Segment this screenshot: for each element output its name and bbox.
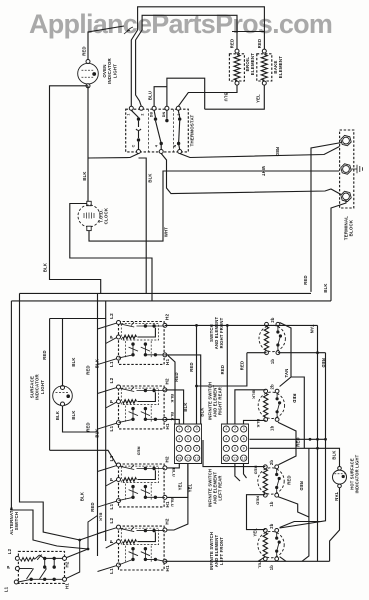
svg-text:4: 4	[178, 438, 180, 442]
wire junction rail y448 to hot light BLK	[250, 448, 340, 466]
svg-text:2b: 2b	[270, 317, 275, 323]
svg-text:ELEMENT: ELEMENT	[250, 53, 255, 75]
svg-text:BLU: BLU	[171, 468, 176, 477]
switch left rear contacts	[121, 465, 135, 470]
infinite switch right front box	[119, 322, 165, 365]
wire RF bottom left RED	[197, 353, 267, 386]
wire thermostat N red to terminal block top	[180, 147, 340, 158]
svg-text:BLK: BLK	[200, 407, 205, 416]
svg-text:5: 5	[187, 438, 189, 442]
svg-text:L2: L2	[109, 455, 114, 461]
wire bundle to thermostat T1	[131, 30, 137, 106]
svg-text:DN: DN	[162, 112, 166, 118]
svg-text:H1: H1	[165, 565, 170, 572]
svg-text:H2: H2	[165, 456, 170, 463]
svg-text:THERMOSTAT: THERMOSTAT	[190, 114, 195, 146]
wire RF right side TAN	[280, 323, 291, 387]
svg-text:LIGHT: LIGHT	[40, 380, 45, 394]
svg-text:C: C	[132, 144, 136, 147]
surface element right front	[259, 325, 285, 351]
wire LF BR to bottom rail	[280, 557, 286, 562]
wire RR BL to grid2 BLK	[244, 420, 266, 424]
svg-text:2b: 2b	[269, 384, 274, 390]
svg-text:RED: RED	[137, 446, 142, 455]
wire LR BR RED	[278, 497, 309, 517]
svg-text:L2: L2	[109, 517, 114, 523]
svg-text:CLOCK: CLOCK	[104, 207, 109, 224]
connector block left	[175, 424, 202, 464]
svg-text:RED: RED	[86, 365, 91, 374]
svg-text:BLOCK: BLOCK	[349, 219, 354, 236]
svg-text:12: 12	[242, 457, 246, 461]
svg-text:RED: RED	[85, 422, 90, 431]
svg-text:7: 7	[178, 448, 180, 452]
clock T.O.D.	[87, 201, 91, 205]
svg-text:P: P	[109, 540, 114, 543]
svg-text:1b: 1b	[269, 565, 274, 571]
ground symbol	[352, 165, 363, 173]
svg-text:L1: L1	[109, 361, 114, 367]
wire LF BL YEL	[258, 557, 265, 562]
wire DN up over to bake return	[167, 78, 205, 109]
wire clock bottom WHT	[89, 171, 339, 241]
svg-text:7: 7	[225, 448, 227, 452]
wire RR BR chain to LR TR RED	[278, 422, 296, 465]
switch left front terminals	[117, 525, 121, 529]
infinite switch right rear box	[119, 386, 165, 429]
wire hop marks	[124, 27, 133, 34]
svg-text:RED: RED	[292, 394, 297, 403]
svg-text:BLK: BLK	[252, 390, 257, 399]
wire feeder stubs	[98, 323, 117, 329]
wire RF bottom row to right	[278, 352, 326, 354]
bus line 2	[11, 301, 331, 549]
svg-text:YEL: YEL	[253, 528, 258, 537]
wire RF line down to grid2 RED	[226, 325, 228, 424]
wire thermostat 4 to terminal block bottom	[161, 154, 341, 195]
svg-text:N: N	[173, 144, 177, 147]
svg-text:WHT: WHT	[261, 166, 266, 176]
svg-text:L2: L2	[109, 313, 114, 319]
svg-text:RED: RED	[174, 372, 179, 381]
svg-text:TAN: TAN	[334, 492, 339, 501]
svg-text:10: 10	[177, 457, 181, 461]
svg-text:6: 6	[243, 438, 245, 442]
surface element right rear	[258, 392, 284, 418]
svg-text:L1: L1	[109, 503, 114, 509]
svg-text:H2: H2	[165, 378, 170, 385]
svg-text:YEL: YEL	[258, 560, 263, 569]
alternate switch contacts	[20, 558, 34, 562]
svg-text:RED: RED	[254, 465, 259, 474]
svg-text:BLK: BLK	[82, 171, 87, 180]
lamp oven indicator light	[86, 60, 90, 64]
svg-text:H1: H1	[165, 359, 170, 366]
infinite switch left rear box	[119, 464, 165, 507]
alternate switch box	[18, 551, 64, 583]
terminal block box	[340, 130, 354, 208]
wire broil return to thermostat	[178, 85, 237, 106]
alternate switch terminals	[15, 556, 19, 560]
svg-text:2: 2	[141, 113, 145, 115]
svg-text:RIGHT REAR: RIGHT REAR	[218, 387, 223, 415]
svg-text:BLU: BLU	[147, 91, 152, 100]
wire junction dots	[87, 548, 90, 551]
wire grid2 to RR TL BLK	[235, 390, 266, 424]
wire U2 H1 to grid	[165, 419, 179, 424]
surface element left front	[258, 531, 284, 557]
svg-text:6: 6	[196, 438, 198, 442]
svg-text:12: 12	[195, 457, 199, 461]
svg-text:2: 2	[234, 428, 236, 432]
connector block right	[222, 424, 249, 464]
svg-text:BLK: BLK	[256, 419, 261, 428]
wire clock top branch	[70, 204, 152, 301]
wire U1 H1 drop to grid1 RED	[168, 356, 175, 424]
svg-text:H1: H1	[165, 501, 170, 508]
wire LR TL feed	[203, 440, 265, 467]
svg-text:RED: RED	[189, 362, 194, 371]
wire feeder A	[97, 293, 99, 556]
wire alternate switch H1	[66, 531, 105, 578]
svg-text:5: 5	[234, 438, 236, 442]
svg-text:BLK: BLK	[323, 283, 328, 292]
svg-text:H2: H2	[64, 561, 69, 567]
wire grid2 bottom stubs	[235, 464, 240, 482]
svg-text:P: P	[109, 478, 114, 481]
svg-text:BLU: BLU	[224, 92, 229, 101]
svg-text:1: 1	[225, 428, 227, 432]
svg-text:8: 8	[234, 448, 236, 452]
svg-text:TAN: TAN	[284, 369, 289, 378]
wire U1 H2 to RF element	[165, 324, 318, 326]
svg-text:H2: H2	[165, 518, 170, 525]
svg-text:YEL: YEL	[255, 94, 260, 103]
svg-text:H1: H1	[165, 423, 170, 430]
wire oven light red feed	[88, 26, 124, 60]
svg-text:RED: RED	[257, 39, 262, 48]
svg-text:1: 1	[178, 428, 180, 432]
svg-text:BLK: BLK	[80, 492, 85, 501]
svg-text:BLK: BLK	[183, 402, 188, 411]
wire vertical x317 TAN	[317, 325, 319, 561]
wire vertical x325 RED	[280, 353, 326, 528]
lamp hot surface indicator light	[338, 467, 342, 471]
svg-text:BLK: BLK	[71, 357, 76, 366]
bus line 1	[20, 293, 312, 540]
svg-text:RED: RED	[321, 358, 326, 367]
svg-text:L2: L2	[7, 548, 12, 554]
svg-text:9: 9	[243, 448, 245, 452]
svg-text:YEL: YEL	[177, 481, 182, 490]
svg-text:TAN: TAN	[310, 325, 315, 334]
wire top supply line L2	[142, 15, 237, 49]
wire junction rail y439	[250, 438, 326, 440]
wire grid1 bottom to U3 H2 BLU	[167, 464, 179, 468]
svg-text:AppliancePartsPros.com: AppliancePartsPros.com	[29, 9, 332, 39]
svg-text:3: 3	[196, 428, 198, 432]
svg-text:RED: RED	[287, 475, 292, 484]
svg-text:BLK: BLK	[43, 263, 48, 272]
wire right vertical red to bus	[311, 143, 342, 292]
svg-text:4: 4	[155, 145, 159, 147]
svg-text:11: 11	[233, 457, 237, 461]
thermostat contacts	[137, 117, 140, 120]
svg-text:BLK: BLK	[71, 410, 76, 419]
wire U1 H1 to grid BLK	[165, 355, 201, 424]
svg-text:P: P	[109, 335, 114, 338]
svg-text:SWITCH: SWITCH	[14, 512, 19, 531]
svg-text:RED: RED	[275, 147, 280, 156]
wire thermostat C to clock	[88, 154, 139, 159]
svg-text:9: 9	[196, 448, 198, 452]
switch right front terminals	[117, 321, 121, 325]
svg-text:BLK: BLK	[55, 411, 60, 420]
switch left rear terminals	[117, 463, 121, 467]
wire DB up to DN line	[154, 87, 167, 107]
resistor bake element	[262, 49, 266, 53]
svg-text:RED: RED	[239, 361, 244, 370]
svg-text:3: 3	[243, 428, 245, 432]
svg-text:2b: 2b	[269, 523, 274, 529]
svg-text:2: 2	[187, 428, 189, 432]
lamp surface indicator light	[50, 319, 117, 465]
svg-text:L1: L1	[109, 425, 114, 431]
svg-text:2b: 2b	[269, 460, 274, 466]
wire bottom terminal to bus BLK	[331, 200, 346, 301]
terminal block studs	[341, 135, 351, 145]
wire LR BL down to LF TL YEL	[247, 495, 266, 530]
svg-text:ELEMENT: ELEMENT	[278, 56, 283, 78]
resistor broil element	[235, 49, 239, 53]
svg-text:DB: DB	[150, 112, 154, 118]
svg-text:WHT: WHT	[164, 227, 169, 237]
svg-text:RIGHT FRONT: RIGHT FRONT	[219, 317, 224, 348]
wire oven light to left drop BLK	[50, 86, 101, 294]
svg-text:8: 8	[187, 448, 189, 452]
switch right rear contacts	[121, 387, 135, 392]
svg-text:10: 10	[224, 457, 228, 461]
wire x308 vertical	[302, 448, 309, 561]
svg-text:BLK: BLK	[95, 359, 100, 368]
wire top supply line L1	[138, 7, 265, 49]
svg-text:L1: L1	[4, 586, 9, 592]
svg-text:RED: RED	[230, 39, 235, 48]
svg-text:RED: RED	[220, 365, 225, 374]
wire bake return	[205, 85, 265, 109]
svg-text:P: P	[6, 565, 11, 568]
wire oven light down to clock BLK	[87, 88, 89, 202]
svg-text:1b: 1b	[269, 425, 274, 431]
wire feeder B	[105, 301, 107, 541]
svg-text:H2: H2	[165, 314, 170, 321]
infinite switch left front box	[119, 526, 165, 570]
wire broil-bake jumper	[232, 31, 264, 33]
svg-text:RED: RED	[42, 350, 47, 359]
thermostat top terminals	[129, 106, 133, 110]
surface element left rear	[258, 468, 284, 494]
svg-text:BLK: BLK	[170, 394, 175, 403]
svg-text:H1: H1	[64, 583, 69, 589]
svg-text:4: 4	[225, 438, 227, 442]
svg-text:RED: RED	[296, 437, 301, 446]
wire vertical to grid RED	[196, 325, 198, 424]
wire alternate switch H2	[66, 516, 97, 558]
svg-text:P: P	[109, 400, 114, 403]
wire bundle to thermostat T2	[136, 30, 143, 106]
wire LF TR to x325	[280, 522, 322, 528]
svg-text:BLK: BLK	[99, 513, 104, 522]
switch left front contacts	[121, 527, 135, 532]
wire U2 H2 down to grid BLK	[165, 390, 184, 424]
wire branch to bus	[139, 158, 147, 293]
wire grid1 bottom to U3 H1 BLU YEL	[167, 464, 188, 498]
switch right rear terminals	[117, 385, 121, 389]
svg-text:BLK: BLK	[331, 450, 336, 459]
svg-text:1b: 1b	[269, 501, 274, 507]
svg-text:INDICATOR LIGHT: INDICATOR LIGHT	[354, 454, 359, 493]
thermostat bottom terminals	[137, 150, 141, 154]
svg-text:1: 1	[127, 113, 131, 115]
svg-text:11: 11	[186, 457, 190, 461]
svg-text:RED: RED	[256, 496, 261, 505]
svg-text:RED: RED	[90, 502, 95, 511]
svg-text:RED: RED	[303, 275, 308, 284]
svg-text:LEFT REAR: LEFT REAR	[218, 475, 223, 500]
svg-text:BLK: BLK	[148, 173, 153, 182]
svg-text:RED: RED	[82, 46, 87, 55]
wire light bottom BLK	[63, 406, 98, 432]
wire hot light bottom TAN	[330, 488, 340, 562]
svg-text:RED: RED	[299, 481, 304, 490]
svg-text:LIGHT: LIGHT	[112, 64, 117, 78]
switch right front contacts	[121, 322, 135, 327]
svg-text:1b: 1b	[270, 359, 275, 365]
wire U4 H1 to bottom rail	[165, 560, 330, 562]
svg-text:L1: L1	[109, 568, 114, 574]
svg-text:L2: L2	[109, 377, 114, 383]
svg-text:BLU: BLU	[170, 498, 175, 507]
wire grid1 col2 down to U4 H2	[167, 464, 188, 531]
svg-text:BLK: BLK	[94, 428, 99, 437]
thermostat box	[126, 109, 189, 152]
